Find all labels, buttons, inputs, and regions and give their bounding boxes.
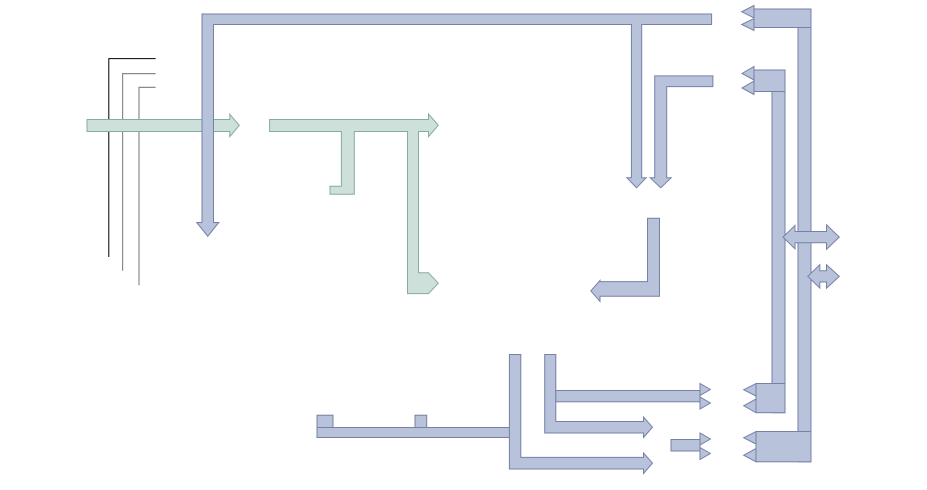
bus: connection bus A into Input Buffer 2 right side — [742, 67, 785, 95]
bus: status/identification register output band — [317, 415, 513, 437]
bus: vertical DQ0-DQ7 rail (bus B) — [798, 9, 811, 462]
bus: vertical V1 from Sense Amplifiers merging register band, into MUX bottom input — [509, 355, 652, 474]
bus: connection bus B into Input Buffer 1 right side — [742, 6, 811, 31]
bus: DQ8-DQ14 bidirectional pad arrow — [783, 225, 839, 250]
bus: Output Buffer 2 right side to bus A — [744, 384, 785, 413]
wire WE# branch up to I/O Control Logic — [139, 87, 156, 285]
bus: Output Buffer 3 right side to bus B — [744, 432, 811, 462]
address bus A0-A17 main segment into Addr Buffer/Latch — [87, 114, 239, 136]
bus: DQ0-DQ7 bidirectional pad arrow — [808, 265, 840, 289]
bus: sense-amp output 8-wide into MUX (vertical V2) — [545, 355, 653, 438]
wire OE# branch up to I/O Control Logic — [123, 74, 156, 271]
data bus: top horizontal run, left vertical drop into Command Execution Logic, branch down to Input Data Latch/Mux — [197, 14, 712, 236]
bus: 7-wide path from Input Buffer 2 down into Input Data Latch/Mux — [650, 76, 713, 188]
address bus 18(19) segment with branches to Addr Counter, X-Decoder and Y-Decoder — [270, 114, 439, 294]
bus: MUX output into Output Buffer 3 — [671, 433, 710, 460]
bus: vertical DQ8-DQ14 rail (bus A) — [772, 70, 785, 413]
bus: 16-wide bus from Input Data Latch/Mux down into Y-Select Gates — [591, 218, 660, 301]
bus: 7-wide band from V2 into Output Buffer 2 — [556, 384, 711, 410]
wire CE# branch up to I/O Control Logic — [109, 59, 156, 257]
